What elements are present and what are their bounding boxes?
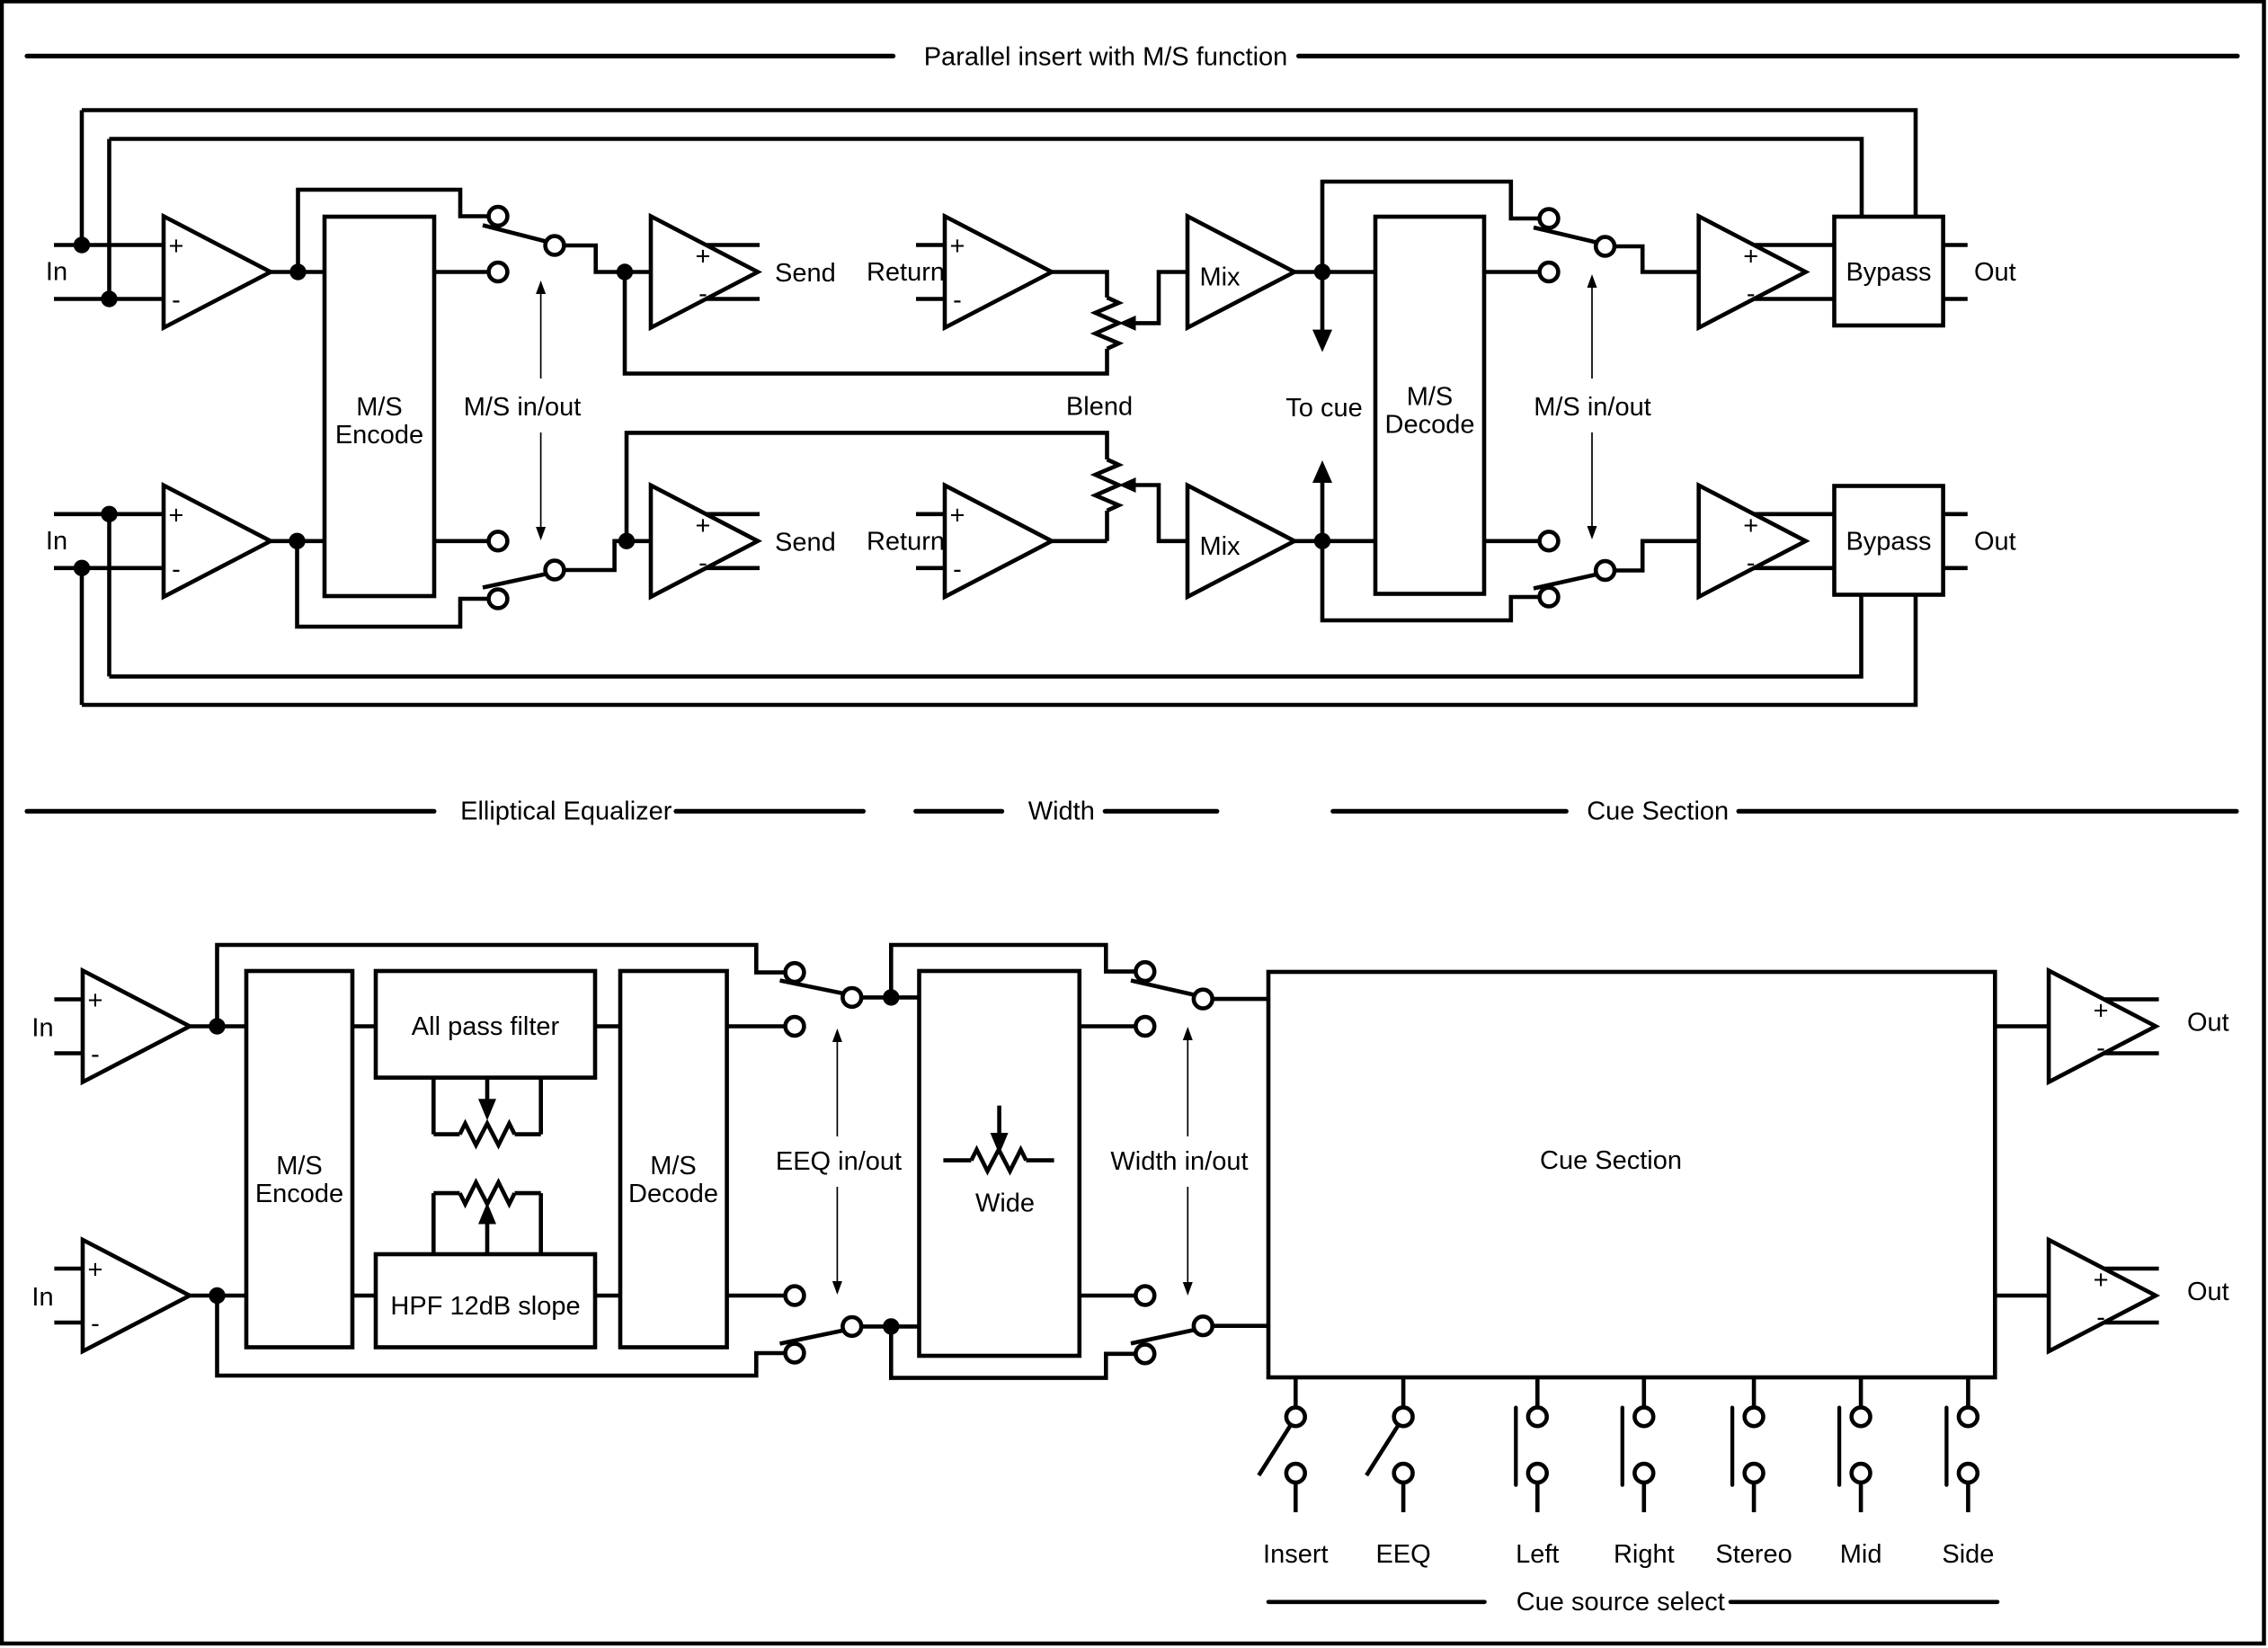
svg-text:In: In <box>31 1283 53 1312</box>
svg-text:Wide: Wide <box>975 1189 1035 1218</box>
svg-text:-: - <box>953 286 962 315</box>
svg-text:In: In <box>46 258 67 287</box>
svg-text:Encode: Encode <box>255 1180 343 1208</box>
svg-text:In: In <box>31 1014 53 1043</box>
svg-text:-: - <box>172 555 181 583</box>
svg-text:Right: Right <box>1614 1540 1675 1569</box>
svg-text:+: + <box>88 1256 103 1285</box>
svg-text:+: + <box>950 232 965 261</box>
svg-text:-: - <box>698 548 707 577</box>
svg-text:Parallel insert with M/S funct: Parallel insert with M/S function <box>924 43 1288 72</box>
svg-text:M/S in/out: M/S in/out <box>464 393 582 422</box>
svg-text:-: - <box>953 555 962 583</box>
svg-text:+: + <box>1743 243 1758 272</box>
svg-text:M/S: M/S <box>1407 382 1454 411</box>
svg-text:Width: Width <box>1028 797 1095 826</box>
svg-text:-: - <box>91 1310 100 1339</box>
svg-text:-: - <box>2096 1034 2105 1063</box>
svg-text:-: - <box>1747 280 1756 308</box>
svg-text:-: - <box>172 286 181 315</box>
svg-text:M/S: M/S <box>356 393 403 422</box>
svg-text:+: + <box>696 512 711 540</box>
svg-text:Blend: Blend <box>1066 392 1133 421</box>
svg-text:+: + <box>2094 997 2109 1026</box>
svg-text:In: In <box>46 527 67 556</box>
svg-text:Encode: Encode <box>335 421 423 450</box>
svg-text:+: + <box>696 243 711 272</box>
svg-text:Decode: Decode <box>1385 410 1475 439</box>
svg-text:Width in/out: Width in/out <box>1110 1147 1248 1176</box>
svg-text:Cue Section: Cue Section <box>1540 1146 1682 1175</box>
svg-text:Out: Out <box>2187 1009 2229 1038</box>
svg-text:+: + <box>1743 512 1758 540</box>
svg-text:Decode: Decode <box>628 1180 718 1208</box>
svg-text:-: - <box>1747 548 1756 577</box>
svg-text:M/S: M/S <box>650 1152 697 1180</box>
svg-text:-: - <box>91 1040 100 1069</box>
svg-text:Stereo: Stereo <box>1715 1540 1792 1569</box>
svg-text:M/S in/out: M/S in/out <box>1534 393 1651 422</box>
svg-text:EEQ: EEQ <box>1375 1540 1430 1569</box>
svg-text:Out: Out <box>1974 258 2016 287</box>
svg-text:Return: Return <box>867 528 945 557</box>
svg-text:Side: Side <box>1942 1540 1994 1569</box>
svg-text:All pass filter: All pass filter <box>412 1012 560 1041</box>
svg-text:+: + <box>88 986 103 1015</box>
svg-text:Out: Out <box>1974 528 2016 557</box>
svg-text:Elliptical Equalizer: Elliptical Equalizer <box>460 797 672 826</box>
svg-text:Mix: Mix <box>1199 263 1241 292</box>
svg-text:Mid: Mid <box>1840 1540 1882 1569</box>
svg-text:+: + <box>169 501 184 530</box>
svg-text:-: - <box>698 280 707 308</box>
svg-text:Return: Return <box>867 258 945 287</box>
svg-text:Cue source select: Cue source select <box>1516 1588 1725 1617</box>
svg-text:+: + <box>169 232 184 261</box>
svg-text:+: + <box>2094 1266 2109 1295</box>
svg-text:+: + <box>950 501 965 530</box>
svg-text:Send: Send <box>775 528 836 557</box>
svg-text:EEQ in/out: EEQ in/out <box>776 1147 902 1176</box>
svg-text:M/S: M/S <box>276 1152 323 1180</box>
svg-text:Cue Section: Cue Section <box>1587 797 1729 826</box>
svg-text:HPF 12dB slope: HPF 12dB slope <box>390 1292 580 1321</box>
svg-text:Send: Send <box>775 259 836 288</box>
svg-text:To cue: To cue <box>1285 394 1362 423</box>
svg-text:Left: Left <box>1516 1540 1559 1569</box>
svg-text:Bypass: Bypass <box>1846 528 1931 557</box>
svg-text:Mix: Mix <box>1199 532 1241 561</box>
svg-text:-: - <box>2096 1304 2105 1332</box>
svg-text:Out: Out <box>2187 1278 2229 1306</box>
svg-text:Insert: Insert <box>1263 1540 1329 1569</box>
svg-text:Bypass: Bypass <box>1846 258 1931 287</box>
